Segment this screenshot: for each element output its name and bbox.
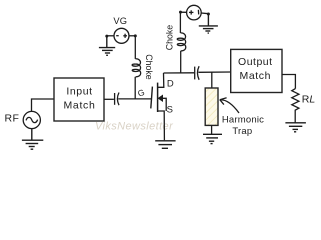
transistor M1 source lead <box>158 111 165 140</box>
transistor M1 body arrow <box>158 95 166 111</box>
svg-text:Trap: Trap <box>232 126 252 137</box>
wire Output Match to RL <box>282 75 295 89</box>
svg-text:RF: RF <box>5 113 20 125</box>
ground (RF source) <box>22 129 43 150</box>
svg-text:VG: VG <box>113 16 127 26</box>
wire VD left <box>181 11 187 13</box>
junction dot <box>207 13 210 16</box>
wire VG left <box>107 35 114 37</box>
wire C2 to Output Match <box>198 71 230 73</box>
transistor M1 channel bar <box>157 83 159 112</box>
wire RF to Input Match <box>32 99 55 111</box>
source VD <box>187 5 202 20</box>
ground (VD) <box>199 14 218 33</box>
capacitor C1 <box>115 93 119 106</box>
block Output Match <box>231 49 282 92</box>
inductor choke L2 <box>177 12 186 73</box>
wire RL to ground <box>294 111 296 123</box>
transistor M1 drain lead <box>158 73 164 87</box>
svg-text:Match: Match <box>63 100 95 112</box>
svg-text:ViksNewsletter: ViksNewsletter <box>95 121 174 133</box>
label Harmonic Trap <box>222 115 264 137</box>
svg-text:RL: RL <box>302 93 316 105</box>
wire drain node row <box>164 72 195 74</box>
ground (M1 source) <box>155 141 175 149</box>
inductor choke L1 <box>132 36 141 99</box>
wire VD right <box>201 12 208 15</box>
svg-text:Choke: Choke <box>144 54 154 80</box>
svg-text:Match: Match <box>240 70 272 82</box>
junction dot <box>105 35 108 38</box>
svg-text:D: D <box>167 79 174 90</box>
wire trap stem <box>211 72 213 88</box>
svg-text:Output: Output <box>238 56 273 68</box>
wire VG right <box>129 35 135 37</box>
svg-text:Harmonic: Harmonic <box>222 115 264 126</box>
junction dot <box>134 34 137 37</box>
wire box to C1 <box>104 98 114 100</box>
svg-text:Choke: Choke <box>165 25 175 51</box>
block Input Match <box>54 78 104 121</box>
ground (trap) <box>203 134 222 143</box>
resistor RL <box>292 89 299 111</box>
source VG <box>114 28 129 43</box>
wire C1 to gate <box>118 98 151 100</box>
ground (RL) <box>285 123 306 132</box>
wire trap to ground <box>211 125 213 134</box>
svg-text:Input: Input <box>66 85 92 97</box>
junction dot <box>179 11 182 14</box>
svg-text:S: S <box>167 104 173 115</box>
annotation arrow to trap <box>220 98 239 113</box>
capacitor C2 <box>195 66 199 80</box>
filter harmonic trap <box>205 88 218 125</box>
ground (VG) <box>99 36 115 55</box>
transistor M1 gate bar <box>151 87 153 109</box>
ac source RF <box>23 111 40 128</box>
